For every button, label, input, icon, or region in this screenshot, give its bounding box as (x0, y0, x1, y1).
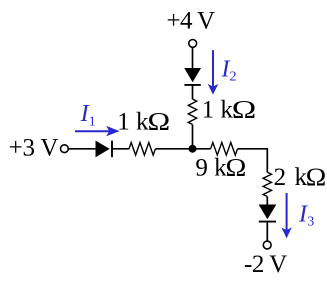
resistor 2 kOhm (vertical) (263, 172, 271, 196)
svg-text:+3 V: +3 V (9, 135, 59, 162)
svg-text:1 k: 1 k (202, 97, 234, 124)
terminal +4 V (189, 40, 197, 48)
label I3 (298, 202, 314, 230)
svg-text:2: 2 (230, 70, 237, 85)
wire from +4V terminal to diode (192, 47, 194, 68)
resistor 1 kOhm (left, horizontal) (129, 143, 155, 156)
svg-text:Ω: Ω (148, 108, 171, 136)
wire from +3V terminal to diode (69, 148, 96, 150)
resistor 1 kOhm (top, vertical) (188, 99, 196, 125)
svg-text:+4 V: +4 V (167, 8, 216, 35)
diode D3 (bottom branch, pointing down) (259, 205, 277, 222)
svg-text:9 k: 9 k (195, 155, 227, 182)
label I2 (221, 57, 237, 85)
svg-text:-2 V: -2 V (244, 251, 287, 278)
current arrow I3 (281, 193, 291, 238)
wire from diode to resistor 1k (left) (112, 148, 129, 150)
svg-text:Ω: Ω (306, 162, 327, 190)
current arrow I2 (208, 50, 219, 94)
terminal -2 V (263, 241, 271, 249)
current arrow I1 (75, 126, 120, 136)
diode D2 (top branch, pointing down) (184, 68, 201, 85)
wire from 9k resistor to corner and down to 2k resistor (238, 149, 268, 173)
svg-text:Ω: Ω (232, 96, 257, 124)
wire from top resistor to junction (192, 125, 194, 149)
junction node (dot) (189, 145, 197, 153)
svg-text:1 k: 1 k (117, 109, 149, 136)
svg-text:1: 1 (89, 115, 96, 130)
wire from diode to resistor 1k (top) (192, 85, 194, 99)
wire from 2k resistor to diode (266, 197, 268, 205)
svg-text:3: 3 (307, 215, 314, 230)
wire from junction to resistor 9k (193, 148, 211, 150)
terminal +3 V (61, 145, 69, 153)
wire from left resistor to junction (155, 148, 192, 150)
svg-text:2: 2 (274, 164, 287, 191)
label I1 (80, 101, 96, 130)
svg-text:Ω: Ω (226, 153, 247, 181)
diode D1 (left branch, pointing right) (96, 141, 113, 158)
wire from diode to -2V terminal (266, 222, 268, 242)
resistor 9 kOhm (horizontal) (211, 143, 238, 156)
